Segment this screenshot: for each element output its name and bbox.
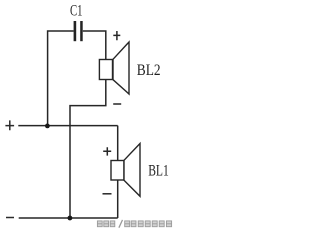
node junction dot on - rail: [68, 216, 73, 221]
node junction dot on + rail: [45, 124, 50, 129]
speaker BL1: [111, 144, 140, 197]
speaker BL2: [99, 42, 129, 94]
svg-text:BL1: BL1: [148, 163, 169, 180]
watermark mid strokes: [97, 223, 171, 225]
svg-text:C1: C1: [70, 3, 83, 20]
label - of BL1: [103, 193, 112, 195]
label + of BL2: [113, 31, 120, 40]
label - of BL2: [113, 103, 121, 105]
node - input terminal: [6, 217, 14, 219]
wire left rail up to capacitor: [48, 31, 74, 126]
watermark slash: [119, 220, 123, 228]
wire - rail horizontal: [19, 217, 118, 219]
svg-text:BL2: BL2: [137, 62, 161, 79]
watermark blobs: [97, 221, 171, 227]
capacitor C1: [74, 21, 83, 41]
wire capacitor right lead to BL2: [83, 31, 106, 60]
wire BL2 minus lead down-left-down: [70, 80, 106, 219]
wire BL1 minus lead: [117, 180, 119, 218]
wire + rail horizontal: [18, 125, 117, 127]
wire BL1 plus lead: [117, 126, 119, 161]
node + input terminal: [5, 120, 14, 130]
label + of BL1: [103, 147, 111, 155]
